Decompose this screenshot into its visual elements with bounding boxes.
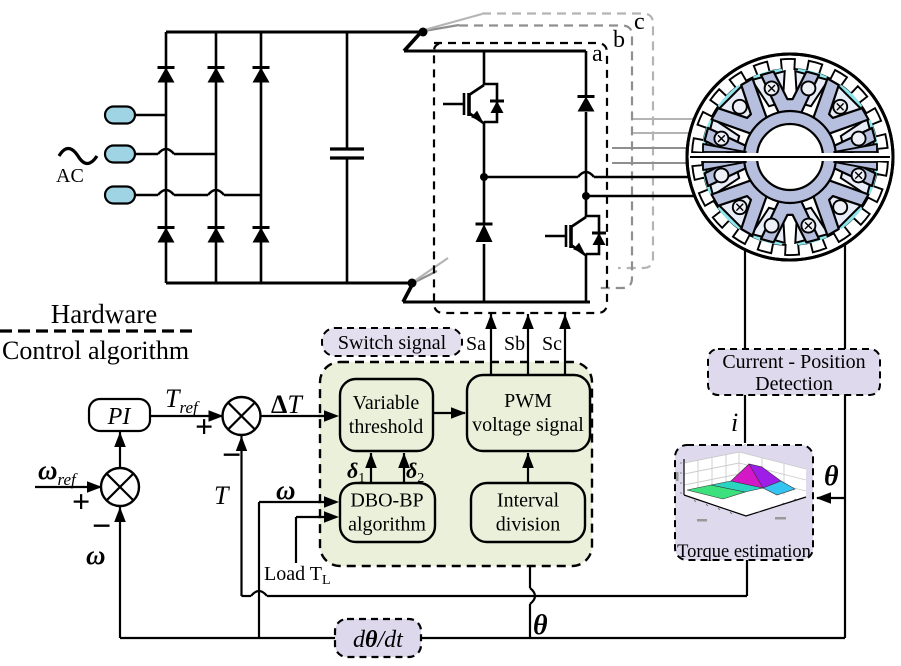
svg-text:AC: AC (56, 165, 84, 187)
svg-text:voltage signal: voltage signal (472, 414, 584, 436)
svg-text:PWM: PWM (504, 390, 552, 412)
svg-text:ΔT: ΔT (271, 390, 303, 419)
svg-text:+: + (195, 408, 213, 444)
svg-text:ω: ω (86, 540, 106, 570)
svg-text:PI: PI (107, 404, 132, 430)
svg-text:i: i (731, 408, 738, 437)
svg-text:ω: ω (276, 475, 296, 505)
svg-text:Variable: Variable (353, 392, 420, 414)
svg-text:algorithm: algorithm (348, 514, 426, 536)
svg-text:θ: θ (533, 610, 548, 641)
svg-text:DBO-BP: DBO-BP (350, 490, 423, 512)
svg-text:θ: θ (824, 461, 839, 492)
svg-text:T: T (214, 481, 230, 510)
svg-text:Detection: Detection (755, 373, 833, 395)
svg-text:dθ/dt: dθ/dt (353, 627, 404, 653)
svg-text:threshold: threshold (349, 416, 423, 438)
svg-text:b: b (613, 27, 625, 53)
svg-text:Torque estimation: Torque estimation (677, 542, 811, 562)
svg-text:−: − (222, 437, 241, 474)
svg-text:division: division (496, 514, 560, 536)
svg-text:Switch signal: Switch signal (338, 332, 447, 354)
svg-text:Control algorithm: Control algorithm (2, 336, 189, 365)
svg-text:+: + (72, 483, 90, 519)
svg-text:Sa: Sa (466, 333, 486, 355)
svg-text:Current - Position: Current - Position (722, 351, 865, 373)
svg-text:a: a (592, 41, 603, 67)
svg-text:c: c (634, 9, 645, 35)
svg-text:Interval: Interval (497, 490, 560, 512)
svg-text:Load TL: Load TL (264, 563, 331, 588)
svg-text:Hardware: Hardware (51, 299, 157, 329)
svg-text:Sb: Sb (504, 333, 525, 355)
svg-text:Sc: Sc (542, 333, 562, 355)
